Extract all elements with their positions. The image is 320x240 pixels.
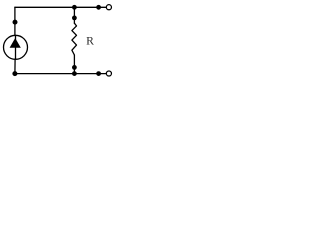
svg-text:R: R	[86, 35, 94, 48]
